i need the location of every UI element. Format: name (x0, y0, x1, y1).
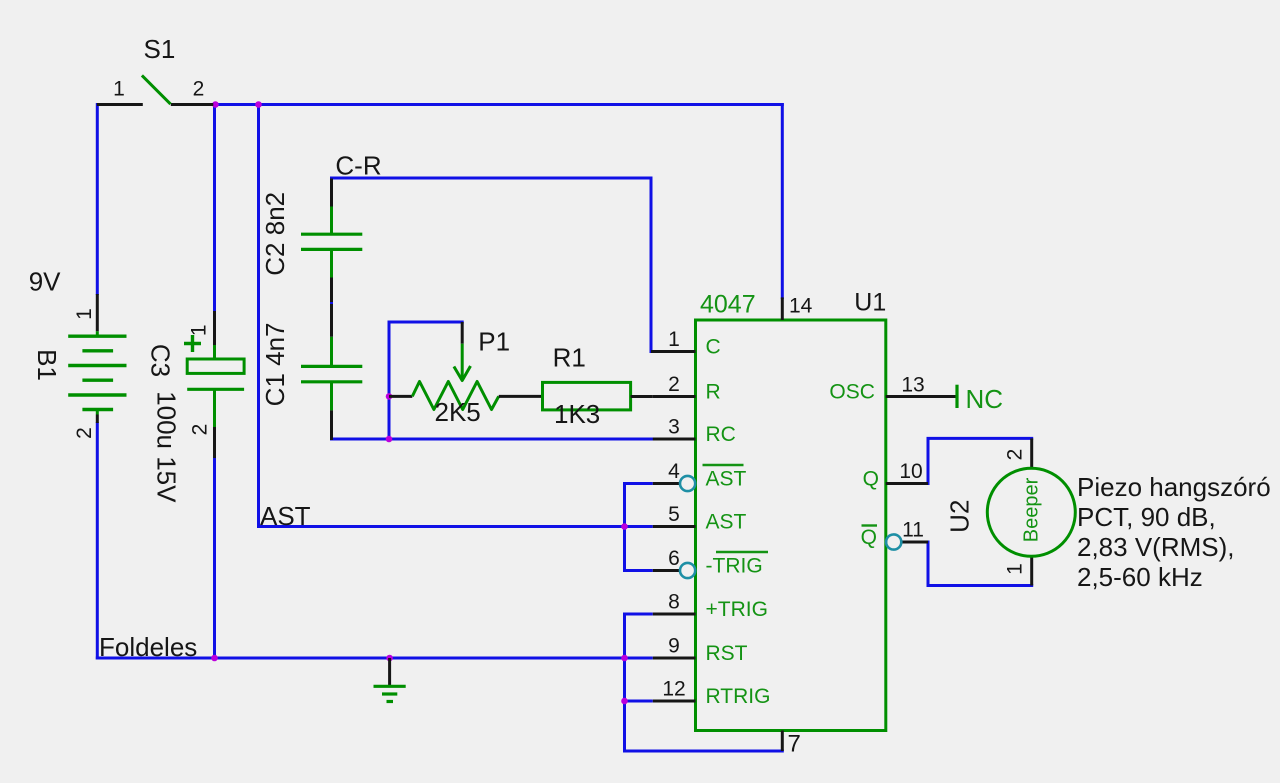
svg-text:1: 1 (668, 328, 680, 351)
svg-text:AST: AST (706, 511, 747, 534)
net label AST (260, 501, 311, 531)
wire P1 wiper horizontal (388, 321, 464, 324)
svg-text:2: 2 (193, 78, 205, 101)
svg-text:OSC: OSC (829, 381, 875, 404)
junction 8 (621, 655, 628, 662)
wire Foldeles horizontal (96, 657, 626, 660)
junction 6 (211, 655, 218, 662)
svg-text:U2: U2 (944, 500, 974, 533)
IC U1 pin 8 (653, 591, 768, 622)
junction 2 (255, 101, 262, 108)
svg-text:Q: Q (863, 468, 879, 491)
wire C-R vertical to pin 1 (650, 177, 653, 354)
wire pin8 stub (625, 613, 653, 616)
IC U1 pin 2 (653, 373, 721, 404)
IC U1 reference label (854, 289, 886, 317)
svg-text:P1: P1 (478, 327, 510, 357)
svg-text:6: 6 (668, 547, 680, 570)
capacitor C3 (184, 311, 244, 458)
no-connect NC flag (957, 384, 1003, 414)
svg-text:4047: 4047 (700, 290, 756, 318)
wire AST vertical (257, 103, 260, 527)
IC U1 pin 7 (782, 731, 801, 758)
svg-text:U1: U1 (854, 289, 886, 317)
capacitor C3 pin 2 number (188, 424, 211, 436)
wire battery negative vertical (96, 422, 99, 660)
beeper U2 pin 1 number (1004, 563, 1027, 575)
wire pin12 stub (625, 700, 653, 703)
svg-text:2: 2 (188, 424, 211, 436)
svg-text:Beeper: Beeper (1020, 477, 1042, 542)
svg-text:RTRIG: RTRIG (706, 685, 771, 708)
svg-text:2: 2 (73, 427, 96, 439)
wire Q net horizontal (927, 437, 1034, 440)
svg-text:AST: AST (706, 468, 747, 491)
svg-text:C1 4n7: C1 4n7 (260, 322, 290, 406)
IC U1 pin 3 (653, 416, 736, 447)
junction 5 (621, 523, 628, 530)
IC U1 pin 5 (653, 503, 747, 534)
ground (374, 658, 406, 702)
wire Q net vertical (927, 437, 930, 485)
svg-text:AST: AST (260, 501, 311, 531)
wire Q-bar net horizontal (927, 584, 1034, 587)
wire pin7 bottom horizontal (623, 750, 784, 753)
svg-text:2: 2 (668, 373, 680, 396)
IC U1 pin 1 (651, 328, 721, 359)
svg-text:C: C (706, 336, 721, 359)
junction 4 (386, 436, 393, 443)
svg-text:Q: Q (861, 526, 877, 549)
wire VCC right vertical to pin 14 (781, 103, 784, 299)
svg-text:3: 3 (668, 416, 680, 439)
junction 9 (621, 698, 628, 705)
wire pin8-pin7 vertical (623, 613, 626, 753)
svg-text:B1: B1 (32, 349, 62, 381)
capacitor C2 (301, 179, 362, 303)
wire C3 bottom vertical (213, 457, 216, 658)
wire C3 top vertical (213, 103, 216, 312)
svg-text:C-R: C-R (335, 150, 381, 180)
svg-text:1: 1 (1004, 563, 1027, 575)
battery B1 label (32, 349, 62, 381)
IC U1 pin 9 (653, 635, 748, 666)
svg-text:2: 2 (1004, 449, 1027, 461)
svg-text:2K5: 2K5 (435, 397, 481, 427)
svg-text:C2 8n2: C2 8n2 (260, 192, 290, 276)
beeper U2 (987, 438, 1075, 585)
net label Foldeles (99, 632, 197, 662)
svg-text:11: 11 (902, 519, 924, 542)
svg-text:9V: 9V (29, 266, 61, 296)
wire pin9 stub (625, 657, 653, 660)
wire C-R horizontal (330, 177, 651, 180)
svg-text:C3: C3 (146, 344, 176, 377)
svg-text:100u 15V: 100u 15V (152, 391, 182, 503)
svg-text:S1: S1 (144, 34, 176, 64)
svg-text:NC: NC (966, 384, 1004, 414)
IC U1 pin 13 OSC (829, 374, 956, 404)
wire pin5 stub (625, 525, 653, 528)
svg-text:RST: RST (706, 642, 748, 665)
wire pin4 stub (625, 482, 653, 485)
IC U1 pin 11 Q-bar (861, 519, 928, 550)
IC U1 pin 6 (653, 547, 768, 578)
svg-text:R: R (706, 381, 721, 404)
junction 3 (386, 393, 393, 400)
beeper U2 name (1020, 477, 1042, 542)
capacitor C2 label (260, 192, 290, 276)
capacitor C3 pin 1 number (188, 324, 211, 336)
IC U1 pin 4 (653, 460, 747, 491)
wire RC net horizontal to pin 3 (330, 438, 654, 441)
wire battery positive vertical (96, 103, 99, 295)
net label C-R (335, 150, 381, 180)
svg-text:1K3: 1K3 (554, 399, 600, 429)
IC U1 pin 10 Q (863, 460, 928, 491)
svg-text:1: 1 (188, 324, 211, 336)
svg-text:Foldeles: Foldeles (99, 632, 197, 662)
battery B1 (29, 266, 127, 423)
svg-text:1: 1 (113, 78, 125, 101)
svg-text:8: 8 (668, 591, 680, 614)
IC U1 pin 14 (782, 294, 812, 320)
IC U1 value 4047 (700, 290, 756, 318)
wire VCC top horizontal (214, 103, 784, 106)
beeper U2 label (944, 500, 974, 533)
capacitor C3 value (152, 391, 182, 503)
svg-text:+TRIG: +TRIG (706, 598, 768, 621)
svg-text:14: 14 (789, 294, 813, 317)
resistor R1 (543, 343, 653, 430)
IC U1 pin 12 (653, 678, 771, 709)
svg-text:RC: RC (706, 423, 736, 446)
battery pin 2 number (73, 427, 96, 439)
junction 1 (212, 101, 219, 108)
annotation piezo description (1077, 472, 1271, 592)
svg-text:-TRIG: -TRIG (706, 555, 763, 578)
wire Q-bar net vertical (927, 541, 930, 588)
wire pin6 stub (625, 569, 653, 572)
capacitor C1 label (260, 322, 290, 406)
svg-text:7: 7 (788, 731, 801, 758)
capacitor C1 (301, 304, 362, 440)
junction 7 (386, 655, 393, 662)
beeper U2 pin 2 number (1004, 449, 1027, 461)
svg-text:12: 12 (662, 678, 685, 701)
wire AST horizontal (257, 525, 626, 528)
capacitor C3 label (146, 344, 176, 377)
wire pin4-pin6 vertical (623, 482, 626, 572)
wire P1 branch vertical (388, 321, 391, 441)
svg-text:9: 9 (668, 635, 680, 658)
wire C1 C2 link (330, 300, 333, 307)
svg-text:5: 5 (668, 503, 680, 526)
svg-text:4: 4 (668, 460, 680, 483)
switch S1 (97, 34, 213, 105)
svg-text:10: 10 (899, 460, 922, 483)
op-amp U1 body (696, 320, 886, 731)
battery pin 1 number (73, 308, 96, 320)
svg-text:1: 1 (73, 308, 96, 320)
potentiometer P1 (389, 322, 543, 427)
svg-text:R1: R1 (553, 343, 586, 373)
svg-text:13: 13 (901, 374, 924, 397)
